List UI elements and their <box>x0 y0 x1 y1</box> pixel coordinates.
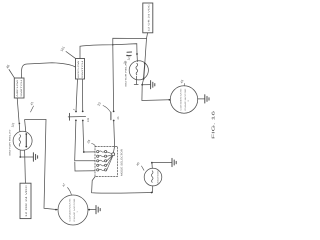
label 161 <box>60 45 76 58</box>
svg-text:12 OR 24 VDC: 12 OR 24 VDC <box>147 4 150 32</box>
label mode selector <box>121 149 124 176</box>
ground for K1 <box>33 153 37 161</box>
wire junction to ground K2 <box>142 84 150 86</box>
ground for pump2 <box>205 95 209 103</box>
svg-text:45: 45 <box>135 161 140 166</box>
svg-text:FIG. 16: FIG. 16 <box>211 109 216 139</box>
label 46 <box>5 64 14 78</box>
wire S2 right pole down <box>82 79 95 153</box>
label 25 <box>117 116 120 119</box>
wire S1 to relay K1 coil <box>17 98 20 132</box>
svg-text:161: 161 <box>60 45 66 52</box>
relay K2 <box>129 61 148 80</box>
selector wiper <box>107 152 115 170</box>
svg-text:CONDENSATE: CONDENSATE <box>69 197 72 221</box>
selector contacts row 4 <box>97 164 107 166</box>
switch actuator bar 135 <box>68 108 90 122</box>
svg-text:12 OR 24 VDC: 12 OR 24 VDC <box>25 184 28 217</box>
wire K2 coil bottom bracket <box>134 76 138 84</box>
wire top branch to contact feed <box>112 38 147 111</box>
label motor relay 115 <box>9 122 16 156</box>
label 45 <box>135 161 144 170</box>
solenoid valve <box>144 168 162 186</box>
label 47 <box>61 182 71 195</box>
wire K1 to battery box <box>24 150 27 183</box>
svg-text:PUMP MOTOR: PUMP MOTOR <box>73 198 76 222</box>
wire K1 to ground <box>19 150 33 158</box>
figure label FIG 16 <box>211 109 216 139</box>
svg-text:AIRFLOW: AIRFLOW <box>77 61 80 79</box>
selector contacts row 1 <box>97 151 107 153</box>
wire K2 to ground junction <box>141 79 170 101</box>
label motor relay 111 <box>125 55 132 86</box>
bus wire to pump motor 1 <box>44 120 57 211</box>
wire pump2 to ground <box>198 98 205 100</box>
pump motor 2 <box>170 86 197 113</box>
svg-text:47: 47 <box>61 182 66 187</box>
mode selector box <box>95 146 118 176</box>
selector contacts row 5 <box>97 169 107 171</box>
svg-text:24: 24 <box>86 139 91 144</box>
pump motor 1 <box>58 195 88 225</box>
svg-text:CONDENSATE: CONDENSATE <box>180 87 183 110</box>
wire selector to solenoid <box>92 177 153 194</box>
relay K1 <box>13 131 32 150</box>
svg-text:SWITCH: SWITCH <box>20 79 23 97</box>
svg-text:SOLENOID: SOLENOID <box>157 170 160 184</box>
wire S1 top to S2 left <box>21 63 75 78</box>
battery box 12 OR 24 VDC upper <box>143 3 153 33</box>
svg-text:115: 115 <box>10 122 15 128</box>
label 115 node <box>29 101 34 112</box>
wire K1 contact to bus <box>25 120 46 133</box>
contact 23 on selector feed <box>111 111 115 122</box>
battery box 12 OR 24 VDC lower <box>20 183 31 218</box>
selector contacts row 3 <box>97 160 107 162</box>
svg-text:43: 43 <box>179 79 184 84</box>
svg-text:135: 135 <box>87 117 90 122</box>
switch box S1 <box>14 78 24 98</box>
wire row5 feed <box>75 162 95 171</box>
ground for solenoid <box>172 158 176 166</box>
label 24 <box>86 139 95 146</box>
wire pump1 to ground <box>88 209 96 211</box>
wire contact to selector wiper <box>113 121 114 153</box>
svg-text:41: 41 <box>29 101 34 106</box>
svg-text:25: 25 <box>117 116 120 119</box>
ground for K2 <box>151 81 155 89</box>
wire solenoid to ground <box>151 162 172 169</box>
label 23 <box>97 102 111 112</box>
svg-text:SWITCH: SWITCH <box>81 60 84 79</box>
wire battery to K2 contact <box>144 33 148 65</box>
svg-text:AIRFLOW: AIRFLOW <box>16 80 19 97</box>
selector contacts row 2 <box>97 155 107 157</box>
svg-text:2: 2 <box>187 100 190 102</box>
contact dashes 28 <box>123 52 132 65</box>
svg-text:23: 23 <box>97 102 102 107</box>
svg-text:MODE SELECTOR: MODE SELECTOR <box>121 149 124 176</box>
svg-text:PUMP MOTOR: PUMP MOTOR <box>184 88 187 111</box>
label 43 <box>179 79 184 86</box>
wire S2 left pole down <box>75 79 95 161</box>
svg-text:1: 1 <box>76 211 79 213</box>
ground for pump1 <box>96 206 100 214</box>
svg-text:MOTOR RELAY: MOTOR RELAY <box>9 128 12 155</box>
svg-text:46: 46 <box>5 64 10 69</box>
switch box S2 <box>76 59 85 80</box>
wire S2 top to relay K2 coil <box>80 44 138 62</box>
